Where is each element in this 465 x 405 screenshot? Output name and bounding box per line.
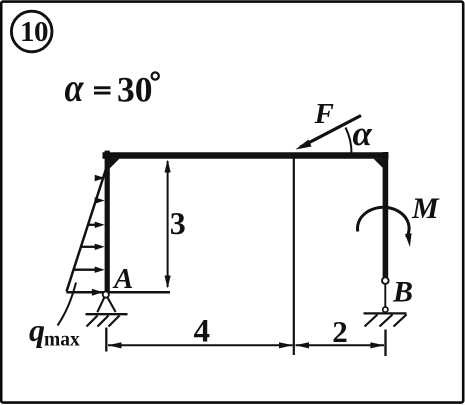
label alpha = 30 deg [65, 65, 159, 110]
support B ground line [364, 312, 407, 314]
support A ground line [86, 313, 128, 315]
svg-text:α: α [65, 65, 85, 110]
left column [105, 151, 110, 293]
roller link [384, 284, 386, 307]
svg-text:α: α [353, 114, 373, 153]
svg-text:30: 30 [117, 70, 153, 110]
roller support B upper circle [382, 277, 389, 284]
problem number circle 10 [11, 11, 52, 52]
support A hatching [87, 316, 120, 327]
left corner fillet [110, 159, 120, 169]
support A triangle legs [97, 297, 104, 312]
thin construction line at F application point [293, 159, 295, 356]
load arrow 3 [87, 222, 105, 228]
dimension tick at A [105, 328, 107, 352]
distributed load hypotenuse [67, 155, 111, 292]
load arrow 4 [80, 244, 104, 250]
beam (top horizontal member) [103, 152, 389, 159]
dimension tick at B [384, 330, 386, 357]
dimension 2 line [295, 342, 384, 348]
pin support A circle [103, 292, 109, 298]
svg-text:F: F [314, 98, 334, 130]
moment M arc [358, 207, 412, 247]
dimension 4 line [108, 342, 293, 348]
bottom load arrow and reference line through A [66, 289, 170, 296]
roller lower circle [383, 307, 388, 312]
right column [383, 152, 389, 278]
support B hatching [365, 315, 407, 327]
svg-text:2: 2 [332, 314, 348, 349]
svg-text:B: B [392, 276, 413, 309]
load arrow 1 [95, 175, 105, 181]
load arrow 5 [73, 267, 104, 273]
right corner fillet [374, 159, 383, 168]
svg-text:4: 4 [194, 314, 211, 350]
load arrow 2 [95, 197, 105, 203]
svg-text:10: 10 [20, 16, 48, 48]
force F line [296, 116, 362, 150]
leader curve to q_max [58, 283, 77, 326]
svg-text:M: M [411, 192, 440, 225]
angle alpha arc [346, 128, 352, 154]
dimension 3 line [165, 160, 171, 289]
svg-text:q: q [29, 312, 45, 348]
svg-text:max: max [44, 330, 80, 351]
label q_max [29, 312, 80, 351]
svg-text:3: 3 [170, 205, 186, 241]
svg-text:A: A [112, 263, 133, 295]
